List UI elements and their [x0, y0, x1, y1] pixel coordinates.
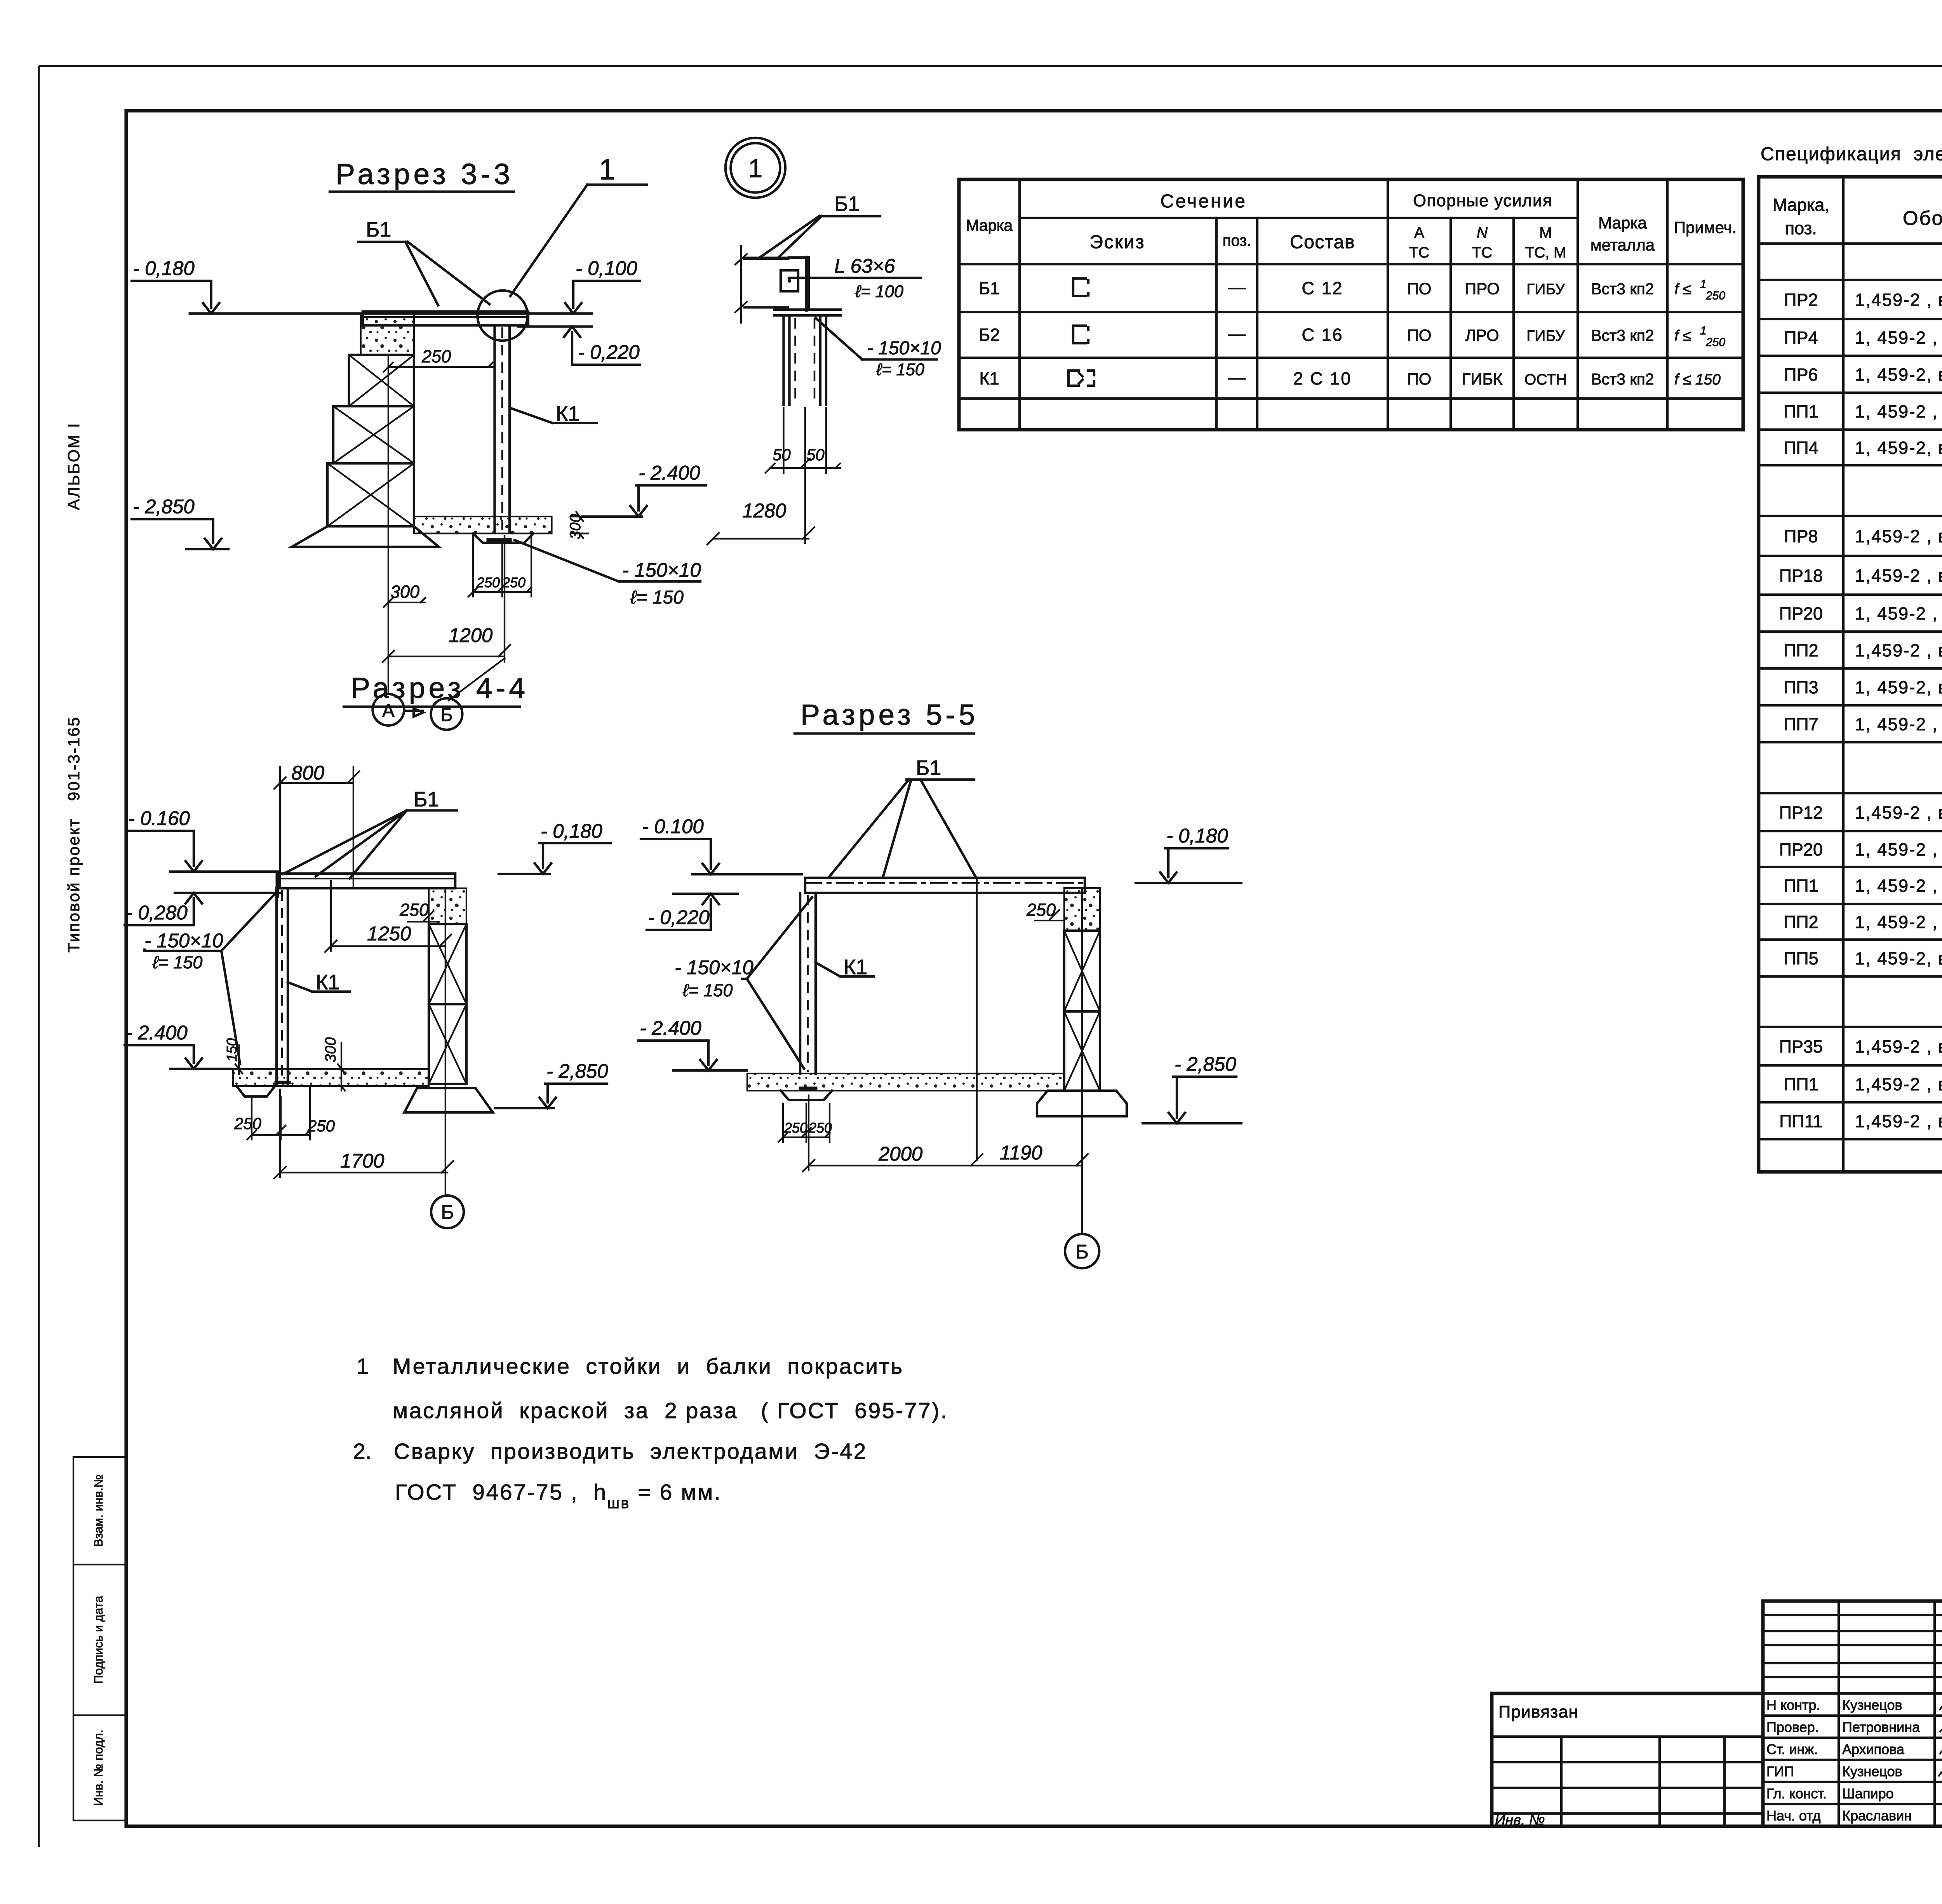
svg-text:АЛЬБОМ I: АЛЬБОМ I: [64, 422, 83, 510]
svg-text:Инв. №: Инв. №: [1495, 1812, 1545, 1828]
svg-text:- 2.400: - 2.400: [640, 1017, 701, 1039]
svg-text:А: А: [1414, 225, 1424, 241]
svg-text:ПП11: ПП11: [1779, 1111, 1822, 1131]
svg-text:1, 459-2, вып 1: 1, 459-2, вып 1: [1855, 365, 1942, 385]
svg-text:- 150×10: - 150×10: [622, 559, 701, 581]
svg-text:ПП1: ПП1: [1784, 876, 1818, 896]
svg-text:—: —: [1228, 277, 1246, 297]
svg-text:250: 250: [399, 900, 429, 920]
svg-text:- 0,100: - 0,100: [576, 257, 637, 279]
svg-text:ПП4: ПП4: [1784, 438, 1818, 458]
svg-text:ПП2: ПП2: [1784, 640, 1818, 660]
svg-text:1,459-2 , вып 1: 1,459-2 , вып 1: [1855, 566, 1942, 585]
svg-text:металла: металла: [1590, 236, 1655, 254]
svg-text:ПО: ПО: [1407, 280, 1432, 298]
svg-text:ПР2: ПР2: [1784, 290, 1818, 310]
svg-text:1: 1: [1700, 324, 1707, 337]
svg-text:1, 459-2 , вып 2: 1, 459-2 , вып 2: [1855, 912, 1942, 932]
svg-text:Сварку производить электрода: Сварку производить электродами Э-42: [394, 1439, 867, 1464]
svg-text:- 150×10: - 150×10: [867, 338, 941, 359]
svg-text:М: М: [1539, 225, 1552, 241]
svg-text:Сечение: Сечение: [1161, 191, 1247, 212]
svg-text:1700: 1700: [340, 1150, 384, 1172]
svg-text:f ≤ 150: f ≤ 150: [1674, 371, 1721, 388]
svg-text:Краславин: Краславин: [1842, 1808, 1912, 1824]
svg-text:Б2: Б2: [979, 325, 1000, 345]
svg-text:Петровнина: Петровнина: [1842, 1719, 1920, 1735]
svg-text:Обозначение: Обозначение: [1903, 207, 1942, 229]
svg-text:1200: 1200: [449, 624, 492, 646]
svg-text:Подпись и дата: Подпись и дата: [91, 1596, 105, 1684]
svg-text:Разрез 5-5: Разрез 5-5: [800, 698, 978, 731]
svg-text:50: 50: [773, 446, 791, 464]
svg-text:- 2.400: - 2.400: [126, 1022, 188, 1044]
svg-text:ПР4: ПР4: [1784, 328, 1818, 348]
svg-text:Инв. № подл.: Инв. № подл.: [91, 1730, 105, 1806]
svg-text:- 0,180: - 0,180: [541, 820, 602, 842]
svg-text:ПП1: ПП1: [1784, 402, 1818, 421]
svg-text:Спецификация элементов к схе: Спецификация элементов к схемам располож…: [1761, 144, 1942, 165]
svg-text:Состав: Состав: [1290, 232, 1355, 252]
svg-text:ТС, М: ТС, М: [1525, 244, 1566, 261]
svg-text:- 150×10: - 150×10: [675, 956, 753, 978]
svg-text:поз.: поз.: [1785, 218, 1817, 238]
svg-text:f ≤: f ≤: [1674, 328, 1695, 345]
svg-text:ℓ= 150: ℓ= 150: [682, 980, 733, 1000]
svg-text:Вст3 кп2: Вст3 кп2: [1591, 280, 1654, 298]
svg-text:ПР6: ПР6: [1784, 365, 1818, 385]
svg-text:Шапиро: Шапиро: [1842, 1786, 1894, 1801]
svg-text:ТС: ТС: [1409, 244, 1429, 261]
svg-text:Б1: Б1: [916, 756, 941, 780]
svg-text:1, 459-2 , вып 1: 1, 459-2 , вып 1: [1855, 328, 1942, 348]
svg-text:- 2.400: - 2.400: [639, 462, 700, 484]
svg-text:Н контр.: Н контр.: [1766, 1697, 1820, 1713]
svg-text:- 0,180: - 0,180: [1166, 825, 1228, 847]
svg-text:ГОСТ 9467-75 , hшв = 6 мм.: ГОСТ 9467-75 , hшв = 6 мм.: [395, 1480, 722, 1512]
svg-text:—: —: [1228, 367, 1246, 387]
svg-text:Марка: Марка: [966, 216, 1013, 234]
svg-text:С 12: С 12: [1302, 278, 1343, 298]
svg-text:ПР20: ПР20: [1779, 604, 1823, 623]
svg-text:ПР8: ПР8: [1784, 526, 1818, 546]
svg-text:1,459-2 , вып 2: 1,459-2 , вып 2: [1855, 1111, 1942, 1131]
svg-text:- 0,220: - 0,220: [578, 341, 640, 363]
svg-text:Ст. инж.: Ст. инж.: [1766, 1741, 1818, 1757]
svg-text:Архипова: Архипова: [1842, 1741, 1905, 1757]
svg-text:ГИБУ: ГИБУ: [1526, 328, 1565, 345]
svg-text:1, 459-2 , вып 2: 1, 459-2 , вып 2: [1855, 714, 1942, 734]
svg-text:Вст3 кп2: Вст3 кп2: [1591, 327, 1654, 345]
svg-text:ПРО: ПРО: [1465, 280, 1500, 298]
svg-text:ПП1: ПП1: [1784, 1074, 1818, 1094]
svg-text:1: 1: [1700, 278, 1707, 291]
svg-text:ГИП: ГИП: [1766, 1763, 1794, 1779]
svg-text:Гл. конст.: Гл. конст.: [1766, 1786, 1827, 1801]
svg-text:250: 250: [1705, 289, 1725, 302]
svg-text:1,459-2 , вып 1: 1,459-2 , вып 1: [1855, 526, 1942, 546]
svg-text:ПО: ПО: [1407, 326, 1432, 345]
svg-text:- 0.160: - 0.160: [128, 807, 190, 829]
svg-text:Разрез 3-3: Разрез 3-3: [336, 158, 513, 190]
svg-text:ПР20: ПР20: [1779, 839, 1823, 859]
svg-text:ПП3: ПП3: [1784, 677, 1818, 697]
svg-text:ГИБУ: ГИБУ: [1526, 281, 1565, 298]
svg-text:поз.: поз.: [1223, 231, 1251, 249]
svg-text:С 16: С 16: [1302, 325, 1343, 345]
svg-text:1, 459-2, вып 2: 1, 459-2, вып 2: [1855, 949, 1942, 968]
svg-text:Примеч.: Примеч.: [1674, 218, 1737, 237]
svg-text:300: 300: [390, 582, 419, 602]
svg-text:ПП5: ПП5: [1784, 949, 1818, 968]
svg-text:2000: 2000: [878, 1143, 922, 1165]
svg-text:1: 1: [357, 1354, 369, 1379]
svg-text:150: 150: [224, 1038, 240, 1062]
svg-text:f ≤: f ≤: [1674, 281, 1695, 298]
svg-text:800: 800: [291, 762, 324, 784]
svg-text:Опорные усилия: Опорные усилия: [1413, 191, 1552, 210]
svg-text:Кузнецов: Кузнецов: [1842, 1763, 1902, 1779]
svg-text:Металлические стойки и балк: Металлические стойки и балки покрасить: [393, 1354, 904, 1379]
svg-text:Типовой проект 901-3-165: Типовой проект 901-3-165: [64, 716, 83, 953]
svg-text:250: 250: [421, 346, 451, 366]
svg-text:1,459-2 , вып. 1: 1,459-2 , вып. 1: [1855, 290, 1942, 310]
svg-text:- 0,180: - 0,180: [133, 257, 195, 279]
svg-text:Б1: Б1: [366, 218, 391, 241]
svg-text:1, 459-2 , вып 2: 1, 459-2 , вып 2: [1855, 876, 1942, 896]
svg-text:1, 459-2 , вып 2: 1, 459-2 , вып 2: [1855, 402, 1942, 421]
svg-text:1250: 1250: [367, 922, 411, 945]
svg-text:ОСТН: ОСТН: [1524, 371, 1567, 388]
svg-text:Провер.: Провер.: [1766, 1719, 1819, 1735]
svg-text:1, 459-2 , вып 1: 1, 459-2 , вып 1: [1855, 839, 1942, 859]
svg-text:ЛРО: ЛРО: [1465, 326, 1499, 345]
svg-text:Б1: Б1: [414, 788, 439, 811]
svg-text:Эскиз: Эскиз: [1089, 232, 1145, 252]
svg-text:Марка: Марка: [1598, 214, 1647, 232]
svg-text:1, 459-2, вып 2: 1, 459-2, вып 2: [1855, 438, 1942, 458]
svg-text:ПР35: ПР35: [1779, 1037, 1823, 1056]
svg-text:Кузнецов: Кузнецов: [1842, 1697, 1902, 1713]
svg-text:Взам. инв.№: Взам. инв.№: [91, 1474, 105, 1547]
svg-text:50: 50: [806, 446, 825, 464]
svg-text:Марка,: Марка,: [1773, 195, 1829, 215]
svg-text:250: 250: [1705, 336, 1725, 349]
svg-text:1, 459-2, вып 2: 1, 459-2, вып 2: [1855, 677, 1942, 697]
svg-text:- 2,850: - 2,850: [546, 1060, 608, 1082]
svg-text:N: N: [1477, 225, 1488, 241]
svg-text:К1: К1: [979, 369, 999, 388]
svg-text:ПР18: ПР18: [1779, 566, 1823, 585]
svg-text:- 0,220: - 0,220: [648, 906, 710, 928]
svg-text:ПР12: ПР12: [1779, 803, 1823, 823]
svg-text:Вст3 кп2: Вст3 кп2: [1591, 370, 1654, 388]
svg-text:Нач. отд: Нач. отд: [1766, 1808, 1820, 1824]
svg-text:250: 250: [234, 1114, 261, 1133]
svg-text:ℓ= 100: ℓ= 100: [855, 282, 903, 301]
svg-text:Привязан: Привязан: [1498, 1703, 1578, 1721]
svg-text:1190: 1190: [1000, 1142, 1042, 1164]
svg-text:250: 250: [307, 1117, 335, 1135]
svg-text:ГИБК: ГИБК: [1462, 370, 1503, 388]
svg-text:- 150×10: - 150×10: [144, 929, 223, 952]
svg-text:масляной краской за 2 раза: масляной краской за 2 раза ( ГОСТ 695-77…: [393, 1398, 948, 1423]
svg-text:- 2,850: - 2,850: [133, 496, 195, 518]
svg-text:Б: Б: [441, 1201, 454, 1223]
svg-text:ПП2: ПП2: [1784, 912, 1818, 932]
svg-text:300: 300: [322, 1037, 339, 1062]
svg-text:Разрез 4-4: Разрез 4-4: [351, 672, 529, 704]
svg-text:ТС: ТС: [1472, 244, 1492, 261]
svg-text:1,459-2 , вып 2: 1,459-2 , вып 2: [1855, 640, 1942, 660]
svg-text:1, 459-2 , вып 1: 1, 459-2 , вып 1: [1855, 604, 1942, 623]
svg-text:ℓ= 150: ℓ= 150: [630, 587, 684, 608]
svg-text:- 2,850: - 2,850: [1175, 1053, 1236, 1075]
svg-text:Б1: Б1: [979, 278, 1000, 298]
svg-text:ПО: ПО: [1407, 370, 1432, 388]
svg-text:Б1: Б1: [834, 192, 860, 216]
svg-text:L 63×6: L 63×6: [834, 255, 895, 277]
svg-text:1280: 1280: [742, 499, 786, 522]
svg-text:ПП7: ПП7: [1784, 714, 1818, 734]
svg-text:1,459-2 , вып 1: 1,459-2 , вып 1: [1855, 1037, 1942, 1056]
svg-text:ℓ= 150: ℓ= 150: [152, 952, 202, 972]
svg-text:1,459-2 , вып 1: 1,459-2 , вып 1: [1855, 803, 1942, 823]
svg-text:2.: 2.: [353, 1439, 372, 1464]
svg-text:- 0,280: - 0,280: [126, 902, 188, 924]
svg-text:ℓ= 150: ℓ= 150: [876, 360, 924, 379]
svg-text:250: 250: [476, 574, 500, 590]
svg-text:1,459-2 , вып 2: 1,459-2 , вып 2: [1855, 1074, 1942, 1094]
svg-text:- 0.100: - 0.100: [642, 815, 704, 837]
svg-text:1: 1: [748, 154, 763, 183]
svg-text:2 С 10: 2 С 10: [1293, 369, 1352, 388]
svg-text:1: 1: [599, 153, 615, 186]
svg-text:Б: Б: [1075, 1241, 1088, 1263]
svg-text:—: —: [1228, 324, 1246, 344]
